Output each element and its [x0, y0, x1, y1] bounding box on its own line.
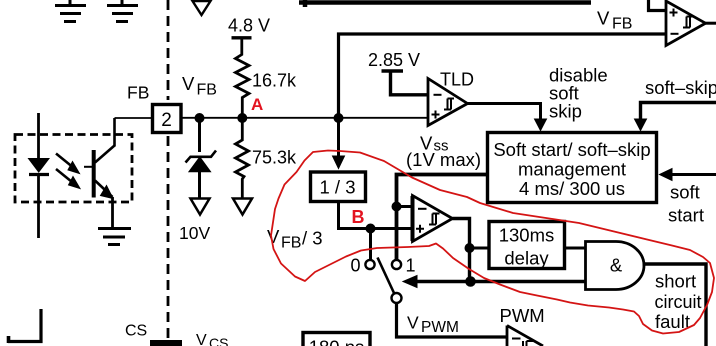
wire: switch control arrow (to lever): [416, 280, 471, 283]
wire: switch common to PWM comparator: [397, 303, 508, 337]
svg-text:2.85 V: 2.85 V: [368, 50, 420, 70]
svg-text:4 ms/ 300 us: 4 ms/ 300 us: [519, 178, 625, 199]
svg-text:FB: FB: [127, 83, 149, 103]
switch common contact: [392, 293, 402, 303]
node dot (zener tap): [195, 113, 205, 123]
svg-text:delay: delay: [504, 248, 549, 269]
wire: op-amp plus input bracket: [649, 0, 667, 11]
svg-text:short: short: [655, 271, 696, 292]
PWM comparator (cut off at bottom): [507, 326, 543, 346]
svg-text:TLD: TLD: [440, 70, 474, 90]
svg-text:soft: soft: [670, 182, 700, 203]
optocoupler dashed box: [15, 135, 132, 203]
node dot (Vss to comparator minus): [392, 202, 402, 212]
switch lever: [378, 258, 395, 294]
svg-text:FB: FB: [281, 235, 301, 252]
svg-text:(1V max): (1V max): [406, 149, 481, 170]
optocoupler phototransistor Q1: [84, 118, 115, 227]
svg-text:10V: 10V: [179, 223, 210, 243]
comparator U3 (V_FB/3 vs Vss): [413, 196, 453, 242]
wire: TLD output to soft-start box with down arrow: [468, 104, 541, 120]
svg-text:CS: CS: [125, 323, 147, 340]
wire: 1/3 box to node B and comparator plus: [339, 203, 413, 229]
svg-text:V: V: [267, 226, 280, 247]
svg-text:CS: CS: [209, 335, 228, 346]
svg-text:management: management: [518, 159, 626, 180]
wire: comparator output down: [453, 219, 470, 282]
op-amp U1 (top right): [666, 1, 706, 46]
node dot (to 1/3 and top op-amp): [334, 113, 344, 123]
open arrow under R2: [233, 199, 252, 215]
wire: AND output to fault line: [643, 264, 707, 346]
down-arrow symbol (top centre, cut off): [193, 1, 211, 15]
zener diode 10V: [186, 118, 217, 215]
svg-text:skip: skip: [549, 101, 582, 122]
thick top wire (cut off): [303, 0, 308, 7]
wire: FB main horizontal: [182, 117, 428, 119]
switch contact 0: [369, 229, 372, 261]
svg-text:start: start: [668, 205, 704, 226]
svg-text:0: 0: [351, 256, 361, 276]
svg-text:&: &: [610, 255, 623, 276]
180 ns box (cut off at bottom): [303, 333, 370, 346]
svg-text:Soft start/ soft–skip: Soft start/ soft–skip: [493, 139, 650, 160]
svg-text:circuit: circuit: [655, 292, 702, 312]
wire: delay box to AND top input: [565, 247, 587, 250]
AND gate: [586, 242, 645, 290]
130ms delay box: [489, 222, 565, 269]
switch contact 1: [392, 260, 401, 269]
optocoupler LED D1: [29, 113, 50, 238]
ground GND2 (top left, second): [107, 0, 138, 22]
svg-text:V: V: [407, 313, 419, 333]
wire: opto collector to FB pin: [115, 117, 152, 119]
pin box 3 (CS, cut off): [150, 340, 182, 346]
svg-text:FB: FB: [612, 16, 632, 33]
light arrows: [56, 154, 80, 189]
node A dot: [237, 113, 247, 123]
wire: Vss from box to switch pos 1: [397, 175, 488, 260]
comparator TLD: [428, 79, 468, 126]
svg-text:4.8 V: 4.8 V: [228, 16, 270, 36]
svg-text:V: V: [196, 332, 207, 346]
svg-text:2: 2: [161, 110, 172, 131]
svg-text:FB: FB: [197, 82, 217, 99]
svg-text:A: A: [251, 95, 263, 114]
wire: soft-skip to box with down arrow: [641, 103, 716, 120]
svg-text:V: V: [182, 73, 195, 94]
red hand-drawn annotation loop: [271, 151, 714, 334]
soft start arrow (right edge into box): [671, 173, 716, 176]
svg-text:V: V: [597, 8, 610, 29]
wire: Vss tap to comparator minus: [397, 205, 413, 208]
op-amp U1 output stub: [706, 22, 716, 25]
svg-text:/ 3: / 3: [302, 228, 323, 249]
svg-text:PWM: PWM: [500, 305, 545, 326]
svg-text:1 / 3: 1 / 3: [320, 177, 356, 198]
junction dot (to 130ms delay): [465, 243, 475, 253]
svg-text:PWM: PWM: [421, 319, 459, 336]
resistor R2 75.3k: [236, 118, 249, 198]
wire: junction to AND bottom input: [471, 280, 587, 283]
wire: node up and right to top op-amp minus: [339, 34, 667, 118]
wire: node down into 1/3 box with arrow: [337, 118, 340, 157]
wire: junction to 130ms delay box: [470, 247, 488, 250]
soft start / soft-skip management box: [488, 133, 657, 203]
node B dot: [366, 224, 376, 234]
ground GND3 (under phototransistor): [98, 229, 131, 245]
resistor R1 16.7k: [236, 38, 250, 118]
ground GND1 (top left): [55, 0, 86, 22]
svg-text:B: B: [352, 207, 365, 227]
svg-text:1: 1: [406, 256, 416, 276]
svg-text:130ms: 130ms: [499, 225, 555, 246]
svg-text:75.3k: 75.3k: [252, 148, 297, 168]
svg-text:soft–skip: soft–skip: [645, 77, 716, 98]
1/3 divider box: [311, 172, 366, 202]
junction dot (to AND / switch control): [465, 276, 476, 287]
corner wire (bottom left, cut off): [8, 309, 41, 342]
svg-text:180 ns: 180 ns: [309, 337, 365, 346]
svg-text:16.7k: 16.7k: [252, 71, 297, 91]
dashed IC boundary line (vertical): [167, 0, 170, 338]
pin box 2 (FB): [153, 105, 182, 133]
